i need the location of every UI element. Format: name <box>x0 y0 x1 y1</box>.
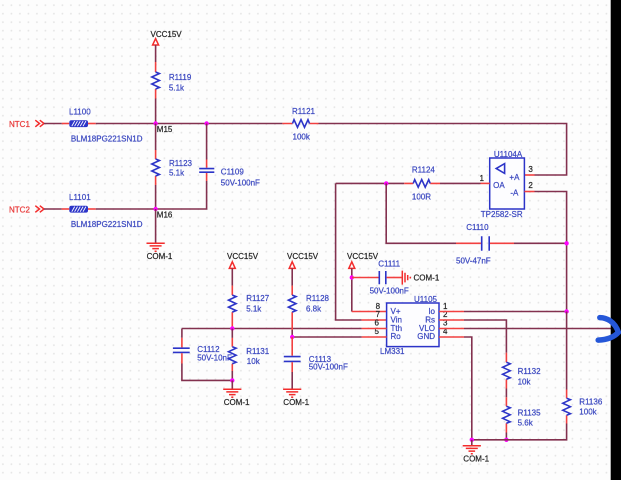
wire R1121 to opamp pin3 <box>319 124 567 176</box>
ground COM-1 (below R1131) <box>223 389 250 407</box>
wire R1135 to bottom rail <box>505 433 507 440</box>
svg-text:5.1k: 5.1k <box>246 304 262 313</box>
svg-text:TP2582-SR: TP2582-SR <box>481 210 523 219</box>
wire NTC2 to L1101 <box>44 208 62 210</box>
svg-text:C1111: C1111 <box>378 259 400 268</box>
svg-text:BLM18PG221SN1D: BLM18PG221SN1D <box>71 134 143 143</box>
svg-text:R1132: R1132 <box>518 367 542 376</box>
resistor R1123 5.1k <box>152 124 193 186</box>
wire R1124 to opamp pin1 <box>440 182 481 184</box>
svg-text:BLM18PG221SN1D: BLM18PG221SN1D <box>71 220 143 229</box>
svg-text:COM-1: COM-1 <box>463 455 489 464</box>
svg-text:R1136: R1136 <box>579 398 603 407</box>
svg-text:COM-1: COM-1 <box>147 252 173 261</box>
wire to ground <box>471 440 473 446</box>
svg-text:M16: M16 <box>157 210 173 219</box>
black bar right edge <box>611 0 621 480</box>
capacitor C1111 50V-100nF <box>352 259 409 295</box>
ground COM-1 (C1111, horizontal) <box>402 271 440 285</box>
power VCC15V (above LM331) <box>347 252 379 268</box>
op-amp U1104A TP2582-SR <box>481 150 525 219</box>
svg-text:10k: 10k <box>247 357 261 366</box>
resistor R1119 5.1k <box>152 62 192 99</box>
svg-text:NTC1: NTC1 <box>9 120 30 129</box>
svg-text:R1131: R1131 <box>246 347 270 356</box>
power VCC15V (top) <box>151 30 183 45</box>
node M16 <box>153 207 173 220</box>
IC U1105 LM331 <box>380 295 439 356</box>
resistor R1131 10k <box>229 329 270 381</box>
wire Rs (pin2) to R1132 <box>439 319 464 321</box>
power VCC15V (above R1128) <box>287 252 319 268</box>
capacitor C1113 50V-100nF <box>284 337 348 389</box>
junction C1110 right <box>564 241 568 245</box>
junction R1127/Tth <box>230 326 234 330</box>
wire R1132 to R1135 <box>505 389 507 398</box>
svg-text:100R: 100R <box>412 192 431 201</box>
svg-text:U1105: U1105 <box>414 295 438 304</box>
wire VCC to junction and pin 8 <box>351 268 353 311</box>
resistor R1127 5.1k <box>229 268 270 328</box>
svg-text:M15: M15 <box>157 125 173 134</box>
svg-text:COM-1: COM-1 <box>224 398 250 407</box>
svg-text:50V-10nF: 50V-10nF <box>197 353 232 362</box>
svg-text:5.1k: 5.1k <box>169 168 185 177</box>
svg-text:2: 2 <box>528 181 533 190</box>
svg-text:VCC15V: VCC15V <box>227 252 259 261</box>
svg-text:6.8k: 6.8k <box>306 304 322 313</box>
junction R1135 bottom <box>504 438 508 442</box>
svg-text:3: 3 <box>528 165 533 174</box>
svg-text:R1127: R1127 <box>246 294 270 303</box>
node junction R1124 left <box>384 181 388 185</box>
ferrite bead L1100 BLM18PG221SN1D <box>69 107 143 143</box>
svg-text:-A: -A <box>510 189 519 198</box>
annotation blue arrow <box>598 318 618 341</box>
svg-text:COM-1: COM-1 <box>414 274 440 283</box>
wire Ro (pin5) to left <box>362 336 387 338</box>
resistor R1124 100R <box>336 165 440 201</box>
junction R1128/Ro/C1113 <box>290 335 294 339</box>
wire L1101 to M16 <box>88 208 96 210</box>
junction Io rail <box>564 309 568 313</box>
resistor R1132 10k <box>503 353 542 389</box>
wire VLO (pin3) to right edge <box>439 328 464 330</box>
wire R1136 to bottom rail <box>472 424 567 440</box>
svg-text:L1101: L1101 <box>69 193 91 202</box>
ground COM-1 (below C1113) <box>283 389 310 407</box>
power VCC15V (above R1127) <box>227 252 259 268</box>
svg-text:50V-100nF: 50V-100nF <box>370 287 409 296</box>
svg-text:L1100: L1100 <box>69 107 91 116</box>
junction C1109 top <box>204 121 208 125</box>
svg-text:5.6k: 5.6k <box>518 419 534 428</box>
svg-text:NTC2: NTC2 <box>9 205 30 214</box>
wire L1100 to M15 and on to R1121 <box>88 123 96 125</box>
svg-text:VCC15V: VCC15V <box>151 30 183 39</box>
svg-text:10k: 10k <box>518 378 532 387</box>
node M15 <box>153 121 173 134</box>
capacitor C1109 50V-100nF <box>156 124 260 210</box>
svg-text:100k: 100k <box>579 407 597 416</box>
resistor R1135 5.6k <box>503 397 542 432</box>
resistor R1128 6.8k <box>288 268 329 337</box>
svg-text:LM331: LM331 <box>380 347 405 356</box>
svg-text:R1135: R1135 <box>518 408 542 417</box>
svg-text:C1109: C1109 <box>221 167 245 176</box>
ground COM-1 (below M16) <box>147 243 173 261</box>
svg-text:50V-100nF: 50V-100nF <box>221 178 260 187</box>
capacitor C1110 50V-47nF <box>456 223 567 266</box>
port NTC2 <box>9 205 44 214</box>
wire Io (pin1) to right rail <box>439 311 464 313</box>
wire opamp pin2 down right rail <box>524 191 534 193</box>
svg-text:5.1k: 5.1k <box>169 83 185 92</box>
svg-text:R1128: R1128 <box>306 294 330 303</box>
ferrite bead L1101 BLM18PG221SN1D <box>69 193 143 229</box>
svg-text:50V-100nF: 50V-100nF <box>309 362 348 371</box>
svg-text:OA: OA <box>493 181 505 190</box>
wire NTC1 to L1100 <box>44 123 62 125</box>
svg-text:VCC15V: VCC15V <box>287 252 319 261</box>
junction C1112/R1131 bottom <box>230 378 234 382</box>
svg-text:U1104A: U1104A <box>494 150 523 159</box>
svg-text:COM-1: COM-1 <box>283 398 309 407</box>
svg-text:C1110: C1110 <box>466 223 489 232</box>
wire GND (pin4) down to ground <box>439 336 464 338</box>
port NTC1 <box>9 120 44 129</box>
wire Vin rail (to LM331 pin 7) <box>336 183 362 320</box>
wire R1119 to M15 <box>155 99 157 124</box>
wire R1123 to M16 <box>155 185 157 209</box>
wire right rail down to R1136 <box>566 312 568 390</box>
wire M16 to ground <box>155 209 157 243</box>
wire to ground <box>231 380 233 389</box>
svg-text:Ro: Ro <box>391 332 402 341</box>
junction VCC/C1111 <box>350 275 354 279</box>
resistor R1121 100k <box>282 107 318 142</box>
capacitor C1112 50V-10nF <box>173 329 232 381</box>
junction GND rail bottom <box>470 438 474 442</box>
svg-text:GND: GND <box>417 332 435 341</box>
svg-text:100k: 100k <box>293 133 311 142</box>
svg-text:R1121: R1121 <box>292 107 316 116</box>
ground COM-1 (bottom) <box>463 446 490 464</box>
wire Tth (pin6) to left <box>362 328 387 330</box>
svg-text:VCC15V: VCC15V <box>347 252 379 261</box>
resistor R1136 100k <box>563 390 603 424</box>
svg-text:1: 1 <box>480 174 485 183</box>
svg-text:R1124: R1124 <box>412 165 436 174</box>
svg-text:R1123: R1123 <box>169 159 193 168</box>
svg-text:50V-47nF: 50V-47nF <box>456 257 491 266</box>
svg-text:+A: +A <box>509 173 520 182</box>
wire junction down to C1110 row <box>386 183 456 243</box>
wire VCC to R1119 <box>155 45 157 62</box>
svg-text:R1119: R1119 <box>169 73 192 82</box>
